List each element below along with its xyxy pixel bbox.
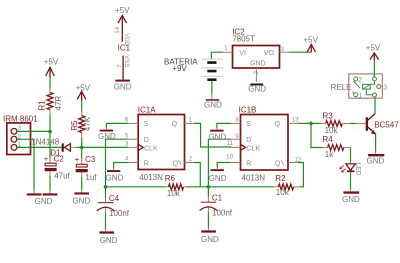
svg-text:GND: GND xyxy=(72,196,90,205)
wire node to R2 xyxy=(208,186,273,188)
wire module pin3 to +5V/R1 rail xyxy=(17,130,50,132)
svg-text:GND: GND xyxy=(204,101,222,110)
svg-text:IC1B: IC1B xyxy=(239,105,257,114)
wire module pin2 to GND xyxy=(17,139,34,191)
svg-text:3: 3 xyxy=(383,85,387,92)
ground (C4) xyxy=(99,229,117,245)
svg-text:S: S xyxy=(246,121,251,128)
svg-text:2: 2 xyxy=(358,77,362,84)
svg-text:Q: Q xyxy=(172,121,178,128)
power +5V (7805 output) xyxy=(304,35,319,52)
ground (IC1B S) xyxy=(208,128,226,142)
svg-text:GND: GND xyxy=(250,60,266,67)
svg-text:47uf: 47uf xyxy=(54,171,70,180)
svg-text:D1: D1 xyxy=(50,149,61,158)
svg-text:GND: GND xyxy=(106,173,124,182)
wire R3 to BC547 base xyxy=(350,122,356,124)
svg-text:GND: GND xyxy=(209,174,227,183)
ground (7805) xyxy=(248,84,266,94)
wire IC1A R to GND xyxy=(114,163,129,169)
wire node to R6 xyxy=(106,186,167,188)
wire C4 to GND xyxy=(105,213,107,229)
resistor R4 xyxy=(322,135,350,159)
wire R2 to IC1B Q-bar xyxy=(298,163,304,187)
svg-text:VI: VI xyxy=(239,50,246,57)
svg-text:10k: 10k xyxy=(325,126,339,135)
svg-text:+5V: +5V xyxy=(76,83,91,92)
svg-text:47K: 47K xyxy=(83,116,92,131)
svg-text:Q: Q xyxy=(275,121,281,128)
diode D1 1N4148 xyxy=(31,138,77,158)
wire LED to GND xyxy=(350,174,352,190)
svg-text:GND: GND xyxy=(201,235,219,244)
ground (BC547) xyxy=(367,151,385,166)
svg-text:1k: 1k xyxy=(325,150,334,159)
voltage regulator IC2 7805T xyxy=(232,28,279,68)
svg-text:1N4148: 1N4148 xyxy=(31,138,60,147)
svg-text:IC1A: IC1A xyxy=(138,105,156,114)
pin 7 VSS line xyxy=(117,55,129,79)
pin 2 (7805 GND) xyxy=(254,68,260,82)
svg-text:R: R xyxy=(246,160,251,167)
wire C2 to GND xyxy=(49,176,51,191)
node junction C1/D9 xyxy=(207,185,211,189)
node junction D1/R5/C3/CLK xyxy=(80,146,84,150)
ground (C2) xyxy=(35,191,58,207)
wire battery to 7805 VI xyxy=(211,52,222,59)
wire +5V to R1 xyxy=(49,77,51,89)
D flip-flop IC1B xyxy=(239,105,288,182)
wire IC1A D to C4/R6 node xyxy=(106,139,129,187)
svg-text:13: 13 xyxy=(292,117,299,123)
capacitor C4 100nf xyxy=(97,187,130,218)
ground (battery) xyxy=(204,94,222,110)
capacitor C3 1uf xyxy=(75,147,98,181)
svg-text:C1: C1 xyxy=(212,194,223,203)
ground (IC1B R) xyxy=(209,167,227,183)
svg-text:GND: GND xyxy=(342,195,360,204)
svg-text:VSS: VSS xyxy=(123,55,129,67)
svg-text:Q: Q xyxy=(173,160,179,167)
LED xyxy=(340,162,362,176)
svg-text:R6: R6 xyxy=(165,174,176,183)
svg-text:GND: GND xyxy=(35,197,53,206)
svg-text:BC547: BC547 xyxy=(374,121,399,130)
svg-text:+5V: +5V xyxy=(304,35,319,44)
svg-text:100nf: 100nf xyxy=(212,208,233,217)
wire BC547 collector to relay xyxy=(374,97,376,114)
resistor R3 xyxy=(321,111,351,135)
pin 3 (7805 VO) xyxy=(280,47,290,53)
transistor Q1 BC547 xyxy=(356,114,399,135)
power +5V (relay) xyxy=(366,44,381,61)
svg-text:47R: 47R xyxy=(54,96,63,111)
svg-text:GND: GND xyxy=(100,236,118,245)
svg-text:7805T: 7805T xyxy=(232,35,255,44)
svg-text:GND: GND xyxy=(248,85,266,94)
svg-text:GND: GND xyxy=(208,132,226,141)
wire +5V to R5 xyxy=(81,100,83,111)
svg-text:4013N: 4013N xyxy=(139,173,163,182)
ground (IC1A R) xyxy=(106,168,124,183)
capacitor C2 47uf xyxy=(44,154,71,180)
ground (C3) xyxy=(72,190,90,206)
battery BATERIA +9V xyxy=(164,58,223,80)
wire node down to R4 xyxy=(311,123,323,147)
resistor R5 xyxy=(70,111,92,139)
wire R1 to junction and down to C2 xyxy=(49,114,51,159)
svg-text:11: 11 xyxy=(227,141,234,147)
IC1B pin stubs xyxy=(231,123,299,162)
ground (IC1 VSS) xyxy=(114,80,132,92)
svg-text:R5: R5 xyxy=(70,120,79,131)
wire R4 to LED xyxy=(350,148,352,163)
svg-text:IC1: IC1 xyxy=(118,44,131,53)
D flip-flop IC1A xyxy=(138,105,185,181)
svg-text:+5V: +5V xyxy=(115,6,130,15)
wire BC547 emitter to GND xyxy=(375,134,377,152)
wire +5V to relay coil xyxy=(373,61,375,78)
svg-text:D: D xyxy=(246,137,251,144)
node junction D5/C4/R6 xyxy=(104,185,108,189)
wire IC1A Q-bar down to R6 line xyxy=(194,163,200,187)
wire R5 to junction xyxy=(81,138,83,147)
wire IC1B D to node xyxy=(208,139,231,187)
svg-text:1: 1 xyxy=(358,93,362,100)
IR receiver module IRM 8601 xyxy=(3,115,38,155)
pin 1 (7805 VI) xyxy=(222,46,232,52)
svg-text:D: D xyxy=(144,137,149,144)
svg-text:C4: C4 xyxy=(109,194,120,203)
svg-text:R4: R4 xyxy=(323,135,334,144)
svg-text:LED: LED xyxy=(355,163,362,176)
svg-text:+5V: +5V xyxy=(366,44,381,53)
resistor R6 xyxy=(165,174,189,198)
svg-text:4013N: 4013N xyxy=(242,174,266,183)
resistor R2 xyxy=(273,174,300,197)
ground (LED) xyxy=(342,189,360,204)
svg-text:VO: VO xyxy=(264,50,275,57)
wire IC1B R to GND xyxy=(217,163,231,168)
resistor R1 xyxy=(37,88,63,115)
svg-text:100nf: 100nf xyxy=(109,209,130,218)
svg-text:+5V: +5V xyxy=(44,57,59,66)
wire C1 to GND xyxy=(207,213,209,229)
ground (IC1A S) xyxy=(98,128,116,142)
svg-text:+: + xyxy=(75,155,80,164)
wire junction to IC1A CLK xyxy=(82,146,129,148)
svg-text:+: + xyxy=(44,154,49,163)
svg-text:R: R xyxy=(144,160,149,167)
svg-text:C3: C3 xyxy=(85,155,96,164)
wire IC1B S to GND xyxy=(217,123,231,128)
capacitor C1 100nf xyxy=(200,187,233,218)
svg-text:10k: 10k xyxy=(167,189,181,198)
wire battery to GND xyxy=(211,81,213,94)
wire IC1A S to GND xyxy=(106,123,128,128)
wire IC1A Q to IC1B CLK xyxy=(194,123,231,147)
svg-text:14: 14 xyxy=(115,26,121,33)
svg-text:GND: GND xyxy=(114,83,132,92)
wire C3 to GND xyxy=(81,177,83,190)
power +5V (R5) xyxy=(76,83,91,101)
svg-text:10k: 10k xyxy=(276,188,290,197)
svg-text:R1: R1 xyxy=(37,100,46,111)
wire module pin1 to D1 anode xyxy=(17,146,62,148)
wire D1 cathode-side net to junction xyxy=(76,146,81,148)
svg-text:CLK: CLK xyxy=(144,145,158,152)
node junction Q13/R3/R4 xyxy=(309,122,313,126)
svg-text:R3: R3 xyxy=(323,111,334,120)
svg-text:R2: R2 xyxy=(275,174,286,183)
svg-text:S: S xyxy=(144,121,149,128)
IC1A pin stubs xyxy=(128,123,194,162)
svg-text:Q: Q xyxy=(275,160,281,167)
svg-text:CLK: CLK xyxy=(246,145,260,152)
svg-text:+9V: +9V xyxy=(172,64,187,73)
power +5V (IC1 VDD) xyxy=(115,6,130,42)
ground (C1) xyxy=(201,228,219,244)
wire R6 to Q1-bar node xyxy=(187,186,208,188)
ground (module pin2) xyxy=(27,191,42,196)
relay RELE xyxy=(331,74,388,100)
wire 7805 VO to +5V xyxy=(289,51,311,53)
svg-text:1uf: 1uf xyxy=(85,173,97,182)
svg-text:10: 10 xyxy=(226,154,233,160)
node junction pin3/R1/C2 xyxy=(48,130,52,134)
wire IC1B Q to R3/R4 node xyxy=(298,122,311,124)
svg-text:GND: GND xyxy=(367,157,385,166)
power +5V (R1) xyxy=(44,57,59,78)
wire node to R3 xyxy=(311,122,321,124)
